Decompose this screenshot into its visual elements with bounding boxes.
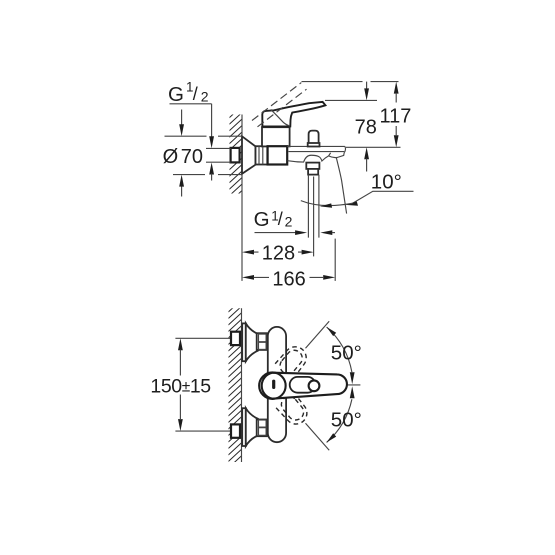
top nut: [257, 333, 267, 350]
150 extension lines: [175, 338, 231, 431]
lever boss circle: [259, 372, 286, 399]
wall face extension: [241, 194, 243, 281]
117 top extension line: [302, 81, 399, 83]
bottom wall square: [231, 424, 240, 437]
square extension lines: [206, 148, 231, 162]
cartridge block: [262, 127, 290, 146]
top wall square: [231, 332, 240, 345]
G1/2 wall pipe square: [231, 148, 240, 163]
lever inner seam: [271, 109, 290, 126]
diverter knob: [309, 131, 319, 144]
50deg lower: extension line: [306, 423, 330, 450]
dashed rotated lever down: [275, 391, 312, 429]
spout lower edge: [289, 151, 345, 153]
lever handle solid: [262, 102, 325, 127]
128 dimension: [242, 250, 314, 255]
svg-text:117: 117: [380, 105, 412, 127]
svg-text:10°: 10°: [371, 171, 402, 194]
G1/2 bottom label: [254, 208, 293, 231]
dia70 extension lines: [165, 136, 243, 174]
svg-text:2: 2: [201, 89, 209, 105]
slot circle: [309, 380, 320, 391]
lever solid (plan): [262, 373, 347, 399]
svg-text:166: 166: [272, 268, 305, 290]
166 dimension: [242, 275, 335, 280]
G1/2 lower arrow up: [209, 163, 214, 175]
svg-text:2: 2: [285, 213, 293, 229]
svg-text:50°: 50°: [331, 342, 362, 365]
10deg leader: [353, 191, 414, 203]
marker tick: [272, 380, 275, 389]
svg-text:70: 70: [181, 146, 203, 168]
G1/2 leader arrow down: [209, 136, 214, 148]
117 dimension: [394, 82, 399, 148]
spout underside with diverter dome: [287, 155, 328, 162]
escutcheon cone (side): [242, 136, 256, 174]
lever centerline: [319, 384, 361, 386]
spout top line: [287, 145, 345, 147]
svg-text:/: /: [278, 209, 283, 229]
body capsule: [268, 327, 286, 442]
78 dimension: [366, 82, 368, 90]
dashed rotated lever up: [274, 342, 311, 380]
pipe centerline: [313, 177, 315, 257]
bottom union: cone rim: [242, 408, 246, 446]
dia70 dim line + arrows: [181, 110, 183, 197]
spout tip cap: [344, 146, 345, 152]
50deg upper arc: [327, 327, 352, 372]
shower pipe: [308, 175, 319, 238]
spout extension line: [346, 146, 401, 148]
G1/2 bottom dim: [255, 232, 296, 234]
svg-text:Ø: Ø: [163, 146, 179, 168]
spout axis 10deg line: [336, 158, 346, 214]
G1/2 top leader: [170, 104, 212, 138]
top cone: [246, 323, 258, 361]
aerator extension: [334, 239, 336, 281]
150+-15 dimension: [178, 338, 183, 431]
G1/2 top label: [168, 80, 209, 107]
wall face line bottom: [241, 308, 243, 462]
svg-text:/: /: [193, 84, 198, 104]
78 extension line: [325, 99, 377, 101]
svg-text:150±15: 150±15: [150, 376, 211, 398]
10deg arc: [301, 201, 353, 206]
wall face line: [241, 115, 243, 194]
50deg lower arc: [327, 399, 352, 442]
bottom nut: [257, 420, 267, 437]
top union: cone rim: [242, 323, 246, 361]
body block: [268, 146, 288, 164]
svg-text:78: 78: [355, 116, 377, 138]
svg-text:G: G: [168, 83, 184, 106]
svg-text:128: 128: [262, 243, 295, 265]
lever slot: [290, 377, 316, 393]
lever raised phantom (dashed): [252, 83, 307, 127]
50deg upper: extension line: [306, 321, 330, 348]
shower outlet fitting: [306, 163, 319, 169]
bottom cone: [246, 408, 258, 446]
aerator mousseur under tip: [329, 153, 345, 158]
svg-text:50°: 50°: [331, 409, 362, 432]
union nut: [256, 146, 268, 164]
svg-text:G: G: [254, 208, 270, 231]
